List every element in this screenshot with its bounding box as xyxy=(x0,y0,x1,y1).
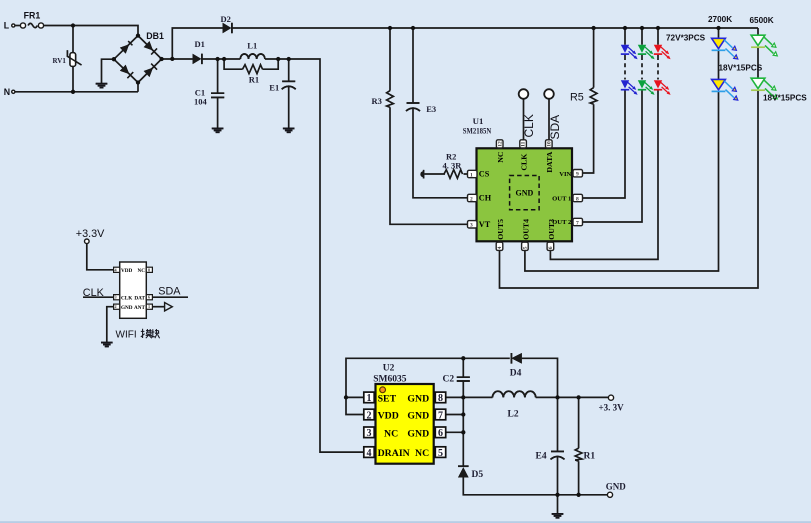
svg-text:E1: E1 xyxy=(269,82,279,92)
svg-text:CLK: CLK xyxy=(519,154,528,171)
svg-text:R1: R1 xyxy=(584,452,596,462)
svg-text:GND: GND xyxy=(516,189,534,198)
svg-text:GND: GND xyxy=(407,411,429,422)
svg-text:2: 2 xyxy=(115,304,117,309)
svg-text:18V*15PCS: 18V*15PCS xyxy=(763,94,807,103)
svg-text:VIN: VIN xyxy=(559,171,571,178)
svg-text:NC: NC xyxy=(384,428,398,439)
svg-text:4: 4 xyxy=(367,448,372,459)
svg-text:SDA: SDA xyxy=(548,115,562,140)
svg-text:C2: C2 xyxy=(443,374,455,384)
svg-text:DAT: DAT xyxy=(134,295,145,301)
svg-text:1: 1 xyxy=(470,172,473,178)
svg-text:GND: GND xyxy=(407,428,429,439)
svg-text:9: 9 xyxy=(576,172,579,178)
svg-text:L1: L1 xyxy=(247,40,257,50)
svg-text:11: 11 xyxy=(521,141,527,146)
svg-text:E3: E3 xyxy=(426,104,436,114)
svg-text:ANT: ANT xyxy=(134,305,145,311)
svg-text:6: 6 xyxy=(548,246,554,249)
svg-text:CLK: CLK xyxy=(121,295,132,301)
svg-text:N: N xyxy=(4,87,10,97)
svg-text:DB1: DB1 xyxy=(146,31,164,41)
svg-text:NC: NC xyxy=(415,448,429,459)
svg-text:12: 12 xyxy=(497,141,503,147)
svg-text:4: 4 xyxy=(497,246,503,249)
svg-text:7: 7 xyxy=(438,410,443,421)
svg-text:2: 2 xyxy=(367,410,372,421)
svg-text:U2: U2 xyxy=(383,364,395,374)
svg-text:NC: NC xyxy=(138,268,146,274)
svg-text:6500K: 6500K xyxy=(750,16,774,25)
svg-text:6: 6 xyxy=(148,295,150,300)
svg-text:5: 5 xyxy=(523,246,529,249)
svg-text:VDD: VDD xyxy=(378,411,399,422)
svg-text:8: 8 xyxy=(148,267,150,272)
svg-text:2: 2 xyxy=(470,196,473,202)
svg-text:OUT3: OUT3 xyxy=(547,219,556,240)
svg-text:L2: L2 xyxy=(508,410,519,420)
svg-text:R5: R5 xyxy=(570,91,584,103)
svg-text:NC: NC xyxy=(496,151,505,163)
svg-text:OUT4: OUT4 xyxy=(521,219,530,240)
svg-text:4. 3R: 4. 3R xyxy=(443,161,463,171)
svg-text:DATA: DATA xyxy=(545,151,554,172)
svg-text:U1: U1 xyxy=(473,116,484,126)
svg-text:R3: R3 xyxy=(372,96,382,106)
svg-text:D1: D1 xyxy=(195,39,205,49)
svg-text:D2: D2 xyxy=(221,14,231,24)
svg-text:GND: GND xyxy=(121,305,133,311)
svg-text:72V*3PCS: 72V*3PCS xyxy=(666,33,706,42)
svg-text:CS: CS xyxy=(479,170,490,179)
svg-text:WIFI: WIFI xyxy=(116,330,137,341)
svg-text:10: 10 xyxy=(546,141,552,147)
svg-text:L: L xyxy=(4,21,10,31)
svg-text:CLK: CLK xyxy=(83,287,105,299)
svg-text:FR1: FR1 xyxy=(24,11,41,21)
svg-text:18V*15PCS: 18V*15PCS xyxy=(719,63,763,72)
svg-text:GND: GND xyxy=(407,393,429,404)
svg-text:R1: R1 xyxy=(249,75,259,85)
svg-text:2700K: 2700K xyxy=(708,15,732,24)
svg-text:+3. 3V: +3. 3V xyxy=(599,403,625,413)
svg-text:SM2185N: SM2185N xyxy=(463,125,492,135)
svg-text:D4: D4 xyxy=(510,369,522,379)
svg-text:3: 3 xyxy=(115,295,117,300)
svg-text:OUT 1: OUT 1 xyxy=(552,195,571,202)
svg-text:SET: SET xyxy=(378,393,397,404)
svg-text:CH: CH xyxy=(479,194,492,203)
svg-text:RV1: RV1 xyxy=(53,57,67,65)
svg-text:5: 5 xyxy=(438,448,443,459)
svg-text:GND: GND xyxy=(606,482,627,492)
svg-text:D5: D5 xyxy=(472,470,484,480)
svg-text:3: 3 xyxy=(367,428,372,439)
svg-text:SM6035: SM6035 xyxy=(373,375,407,385)
svg-text:DRAIN: DRAIN xyxy=(378,448,410,459)
svg-text:OUT5: OUT5 xyxy=(496,219,505,240)
svg-text:VDD: VDD xyxy=(121,268,132,274)
svg-text:104: 104 xyxy=(194,96,208,106)
svg-text:8: 8 xyxy=(438,393,443,404)
svg-text:CLK: CLK xyxy=(522,114,536,137)
svg-text:SDA: SDA xyxy=(158,286,181,298)
svg-text:8: 8 xyxy=(576,196,579,202)
svg-text:VT: VT xyxy=(479,220,491,229)
svg-text:6: 6 xyxy=(438,428,443,439)
svg-text:1: 1 xyxy=(148,304,150,309)
svg-text:3: 3 xyxy=(470,223,473,229)
svg-text:+3.3V: +3.3V xyxy=(76,228,105,240)
svg-text:E4: E4 xyxy=(536,452,547,462)
svg-text:7: 7 xyxy=(576,220,579,226)
svg-text:1: 1 xyxy=(367,393,372,404)
